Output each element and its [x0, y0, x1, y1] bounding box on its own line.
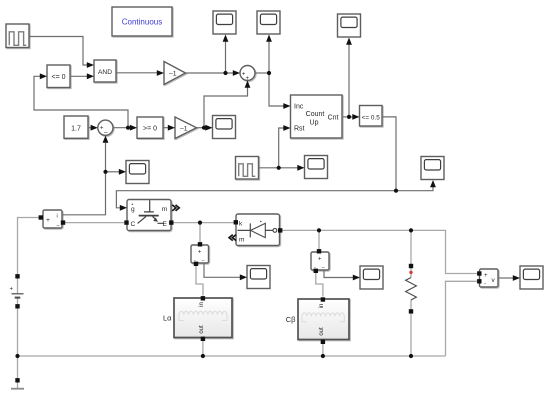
svg-text:AND: AND — [98, 69, 112, 76]
ground symbol — [11, 378, 24, 389]
svg-text:Cnt: Cnt — [328, 115, 339, 122]
wire feedback from node after S2 to compare<=0 input — [34, 76, 128, 127]
svg-text:+: + — [484, 273, 488, 279]
wire node to scope Sc3 — [348, 44, 350, 117]
svg-text:out: out — [199, 325, 205, 334]
subsystem Cbeta — [298, 299, 349, 340]
wire M1 - terminal to IGBT C — [65, 222, 124, 224]
svg-text:+: + — [46, 217, 50, 224]
wire M3 output to scope Sc9 — [324, 270, 353, 278]
svg-text:-: - — [484, 282, 486, 288]
wire M2 output to scope Sc8 — [204, 263, 240, 277]
battery B1 (DC source) — [10, 274, 24, 378]
node tap down to resistor R1 — [410, 230, 412, 264]
scope Sc6 — [305, 156, 328, 179]
node tap to scope Sc1 — [225, 41, 227, 73]
wire G1 output to sum S1 — [186, 72, 234, 74]
wire Cnt output to compare <=0.5 — [342, 116, 353, 118]
wire compare<=0 output to AND input 2 — [70, 75, 87, 77]
wire node to counter Rst — [279, 128, 284, 168]
wire sum S1 output node — [255, 72, 269, 74]
measurement block M2 (Lalpha branch) — [191, 245, 209, 264]
wire M4 - terminal to bus end — [446, 281, 478, 356]
svg-text:–1: –1 — [180, 125, 188, 132]
gain G2 (-1) — [175, 117, 197, 139]
scope Sc7 — [421, 157, 444, 180]
sum S1 — [240, 66, 255, 83]
svg-text:Rst: Rst — [294, 126, 305, 133]
current measurement M1 (+ i) — [43, 210, 62, 229]
logic block AND — [94, 60, 116, 82]
svg-text:Count: Count — [306, 111, 325, 118]
scope Sc1 — [213, 11, 236, 34]
svg-text:m: m — [239, 237, 245, 244]
scope Sc10 — [520, 266, 543, 289]
bottom bus wire — [18, 355, 446, 357]
wire Lalpha out to bottom bus — [202, 341, 204, 356]
svg-text:–: – — [104, 129, 108, 136]
compare block <= 0.5 — [360, 106, 383, 127]
svg-text:>= 0: >= 0 — [143, 126, 157, 133]
wire diode output to load node — [282, 230, 477, 273]
svg-text:C: C — [131, 221, 136, 228]
wire constant 1.7 to sum S2 — [88, 127, 91, 129]
sum S2 — [98, 120, 113, 136]
svg-text:+: + — [318, 257, 322, 263]
svg-text:Cβ: Cβ — [286, 315, 296, 324]
wire Cbeta out to bottom bus — [322, 344, 324, 356]
svg-text:Continuous: Continuous — [122, 18, 162, 27]
svg-text:i: i — [57, 214, 58, 220]
wire node to scope Sc2 — [268, 41, 270, 73]
wire P1 to AND input 1 — [29, 37, 87, 66]
svg-text:out: out — [319, 327, 325, 336]
scope Sc9 — [360, 266, 383, 289]
wire node to scope Sc7 — [396, 187, 433, 191]
subsystem Lalpha — [174, 298, 232, 338]
wire AND output to G1 — [116, 72, 157, 74]
node tap down to M2 + — [199, 223, 201, 242]
svg-text:in: in — [319, 304, 325, 309]
wire current signal i to sum S2 — [62, 143, 106, 215]
wire node tap to scope Sc5 — [106, 171, 120, 173]
wire >=0 output to gain G2 — [163, 127, 168, 129]
svg-text:--: -- — [202, 258, 206, 264]
diode m output chevron — [229, 235, 236, 241]
svg-text:g: g — [131, 206, 135, 213]
wire compare <=0.5 output to IGBT gate — [116, 117, 396, 208]
measurement block M3 (Cbeta branch) — [311, 252, 329, 271]
scope Sc5 — [126, 161, 149, 184]
wire M1 + terminal to battery — [18, 218, 41, 275]
compare block <= 0 — [47, 65, 70, 88]
svg-text:in: in — [199, 302, 205, 307]
node tap down to M3 + — [318, 230, 320, 249]
wire resistor bottom to bus — [410, 314, 412, 357]
svg-text:<= 0: <= 0 — [51, 74, 65, 81]
svg-text:Inc: Inc — [294, 104, 304, 111]
scope Sc8 — [247, 266, 270, 289]
wire node to sum S1 lower input — [204, 88, 248, 128]
Continuous annotation block — [112, 7, 172, 36]
wire IGBT E to diode k — [172, 222, 234, 224]
wire P2 output to scope Sc6 — [259, 167, 298, 169]
wire node to counter Inc — [269, 73, 284, 106]
svg-text:E: E — [163, 221, 168, 228]
diode block D1 — [236, 214, 280, 246]
constant 1.7 — [64, 116, 88, 138]
gain G1 (-1) — [164, 62, 186, 85]
counter block Count Up — [291, 95, 343, 138]
svg-text:m: m — [162, 206, 168, 213]
wire M3 - terminal to Cbeta in — [316, 272, 323, 297]
pulse generator P2 — [236, 157, 259, 180]
svg-text:--: -- — [322, 265, 326, 271]
compare block >= 0 — [137, 117, 163, 138]
wire M4 output to scope Sc10 — [498, 277, 513, 279]
IGBT m output chevron — [172, 205, 179, 211]
svg-text:<= 0.5: <= 0.5 — [362, 115, 381, 122]
svg-text:Lα: Lα — [163, 314, 172, 323]
wire sum S2 output to compare >=0 — [113, 127, 130, 129]
svg-text:+: + — [10, 287, 14, 293]
wire G2 output to scope Sc4 — [197, 127, 206, 129]
scope Sc4 — [213, 116, 236, 139]
ports on blocks — [39, 215, 482, 344]
resistor R1 — [406, 264, 417, 314]
svg-text:–1: –1 — [169, 71, 177, 78]
svg-text:Up: Up — [310, 120, 319, 127]
scope Sc3 — [338, 14, 361, 37]
scope Sc2 — [257, 11, 280, 34]
pulse generator P1 — [6, 24, 29, 48]
svg-text:1.7: 1.7 — [71, 125, 81, 132]
wire M2 - terminal to Lalpha in — [196, 265, 203, 296]
voltage measurement M4 (load) — [480, 269, 499, 288]
svg-text:+: + — [198, 250, 202, 256]
IGBT block U1 — [127, 200, 171, 231]
